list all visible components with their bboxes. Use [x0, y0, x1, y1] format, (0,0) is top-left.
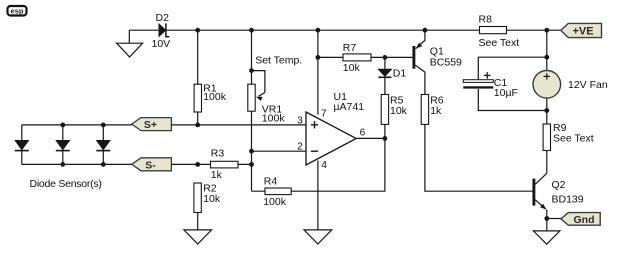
junction: R1 bottom on S+: [195, 123, 200, 128]
junction: Q1 emitter on rail: [423, 28, 428, 33]
junction: sensor bottom 2: [60, 162, 65, 167]
label Q1: [430, 45, 444, 57]
junction: pin7 feed on rail: [316, 28, 321, 33]
label U1 type uA741: [334, 101, 365, 113]
svg-text:100k: 100k: [262, 113, 286, 125]
ground (left, D2 anode): [117, 30, 143, 57]
wire: to Gnd flag: [547, 218, 561, 220]
capacitor C1: [463, 72, 493, 89]
pin 3 label: [297, 115, 303, 126]
label R4: [264, 176, 278, 188]
ground (Q2 emitter): [533, 231, 560, 244]
svg-text:6: 6: [360, 127, 366, 138]
label R3 value 1k: [211, 169, 223, 181]
svg-text:+VE: +VE: [572, 26, 593, 38]
wire: pin 2 input: [252, 150, 307, 152]
resistor R2: [194, 183, 201, 213]
wire: R1 bottom lead: [197, 112, 199, 125]
junction: C1 top tee: [544, 55, 549, 60]
resistor R4: [265, 188, 291, 195]
wire: R7 right to Q1 base: [371, 56, 413, 58]
svg-text:R8: R8: [479, 14, 493, 26]
wire: D1 top lead: [384, 57, 386, 69]
transistor Q2 BD139: [534, 173, 547, 218]
label D2 value 10V: [152, 38, 171, 50]
label R6 value 1k: [430, 105, 442, 117]
junction: pin2 tee: [249, 149, 254, 154]
wire: fan bottom to R9: [546, 98, 548, 124]
label VR1 value 100k: [262, 113, 286, 125]
wire: sensor cathode rail (S-): [22, 163, 132, 165]
junction: R7 left tee: [316, 55, 321, 60]
junction: +VE / fan node: [544, 28, 549, 33]
wire: R7 left lead: [318, 56, 343, 58]
wire: S- to R3: [171, 163, 251, 165]
svg-text:See Text: See Text: [479, 37, 520, 49]
label R6: [430, 94, 444, 106]
ground (pin 4): [304, 230, 332, 244]
label C1: [494, 77, 508, 89]
node flag S-: [132, 158, 172, 172]
junction: output node: [383, 136, 388, 141]
trimpot VR1: [248, 71, 265, 112]
svg-text:Set Temp.: Set Temp.: [255, 54, 302, 66]
node flag Gnd: [561, 213, 600, 226]
svg-text:R7: R7: [343, 42, 357, 54]
svg-text:1k: 1k: [430, 105, 442, 117]
wire: sensor anode rail (S+): [22, 124, 132, 126]
wire: pin 4 to ground: [317, 160, 319, 230]
wire: R5 bottom lead: [384, 124, 386, 138]
resistor R5: [381, 95, 388, 125]
pin 7 label: [321, 109, 327, 120]
junction: D1 / Q1 base node: [383, 55, 388, 60]
label C1 value 10uF: [494, 87, 518, 99]
pin 2 label: [297, 142, 303, 153]
svg-text:Q1: Q1: [430, 45, 444, 57]
svg-text:100k: 100k: [263, 196, 287, 208]
junction: sensor bottom 3: [101, 162, 106, 167]
wire: S+ to pin 3: [171, 124, 306, 126]
svg-text:10V: 10V: [152, 38, 171, 50]
label R7: [343, 42, 357, 54]
label R8: [479, 14, 493, 26]
label R1 value 100k: [203, 91, 227, 103]
label Diode Sensor(s): [30, 178, 102, 190]
wire: C1 top link: [478, 57, 547, 79]
resistor R3: [211, 161, 239, 168]
label Q2 type BD139: [552, 193, 584, 205]
label R7 value 10k: [343, 62, 361, 74]
junction: C1 bottom / R9 top: [544, 108, 549, 113]
wire: op-amp output: [356, 137, 385, 139]
svg-text:1k: 1k: [211, 169, 223, 181]
svg-text:Gnd: Gnd: [574, 214, 595, 226]
svg-text:4: 4: [321, 160, 327, 171]
svg-text:Q2: Q2: [552, 179, 566, 191]
resistor R9: [543, 124, 550, 151]
wire: R6 bottom to Q2 base: [425, 124, 533, 191]
svg-text:10k: 10k: [343, 62, 361, 74]
label R8 note See Text: [479, 37, 520, 49]
svg-text:7: 7: [321, 109, 327, 120]
resistor R8: [480, 27, 507, 34]
op-amp U1 uA741: [306, 112, 356, 165]
label R9: [553, 122, 567, 134]
wire: D1 to R5: [384, 77, 386, 94]
label R2: [203, 182, 217, 194]
label D1: [393, 68, 407, 80]
label U1: [334, 91, 348, 103]
label 12V Fan: [568, 79, 608, 91]
label Q2: [552, 179, 566, 191]
junction: R2 top on S-: [195, 162, 200, 167]
wire: R9 bottom lead: [546, 151, 548, 174]
svg-text:S-: S-: [145, 159, 156, 171]
svg-text:R4: R4: [264, 176, 278, 188]
sensor diode 2: [56, 125, 70, 164]
svg-text:µA741: µA741: [334, 101, 365, 113]
label D2: [156, 12, 170, 24]
wire: rail to fan top: [546, 30, 548, 70]
svg-text:12V Fan: 12V Fan: [568, 79, 608, 91]
resistor R1: [194, 84, 201, 112]
label R2 value 10k: [203, 193, 221, 205]
svg-text:S+: S+: [144, 119, 157, 131]
svg-text:D2: D2: [156, 12, 170, 24]
junction: R3 right / pin2 net: [249, 162, 254, 167]
svg-text:BC559: BC559: [430, 57, 462, 69]
ground (R2): [184, 230, 212, 244]
pin 6 label: [360, 127, 366, 138]
svg-text:10k: 10k: [203, 193, 221, 205]
diode D1: [378, 69, 391, 77]
svg-text:D1: D1: [393, 68, 407, 80]
resistor R7: [343, 54, 371, 61]
motor: 12V fan: [533, 71, 561, 99]
label Set Temp.: [255, 54, 302, 66]
wire: Gnd stub: [546, 219, 548, 231]
label VR1: [262, 104, 283, 116]
wire: VR1 top lead: [251, 30, 253, 84]
wire: VR1 bottom to pin2 net: [251, 111, 253, 191]
junction: Q2 emitter / Gnd node: [544, 216, 549, 221]
label R5 value 10k: [390, 105, 408, 117]
zener diode D2: [159, 23, 169, 36]
label R4 value 100k: [263, 196, 287, 208]
svg-text:R3: R3: [211, 148, 225, 160]
wire: pin 7 supply: [317, 30, 319, 114]
node flag +VE: [561, 23, 602, 37]
transistor Q1 BC559: [414, 30, 425, 94]
svg-text:Diode Sensor(s): Diode Sensor(s): [30, 178, 102, 190]
wire: feedback down-left: [252, 138, 385, 191]
label Q1 type BC559: [430, 57, 462, 69]
junction: VR1 top on rail: [249, 28, 254, 33]
wire: R2 bottom lead: [197, 213, 199, 230]
label R1: [203, 83, 217, 95]
junction: R1 top on rail: [195, 28, 200, 33]
pin 4 label: [321, 160, 327, 171]
svg-text:BD139: BD139: [552, 193, 584, 205]
ESP logo: [8, 6, 27, 16]
svg-text:10µF: 10µF: [494, 87, 518, 99]
junction: VR1 wiper tie: [249, 68, 254, 73]
label R3: [211, 148, 225, 160]
junction: sensor top 2: [60, 123, 65, 128]
sensor diode 1: [15, 125, 29, 164]
resistor R6: [421, 95, 428, 125]
wire: +10V / +VE top rail: [129, 29, 561, 31]
svg-text:See Text: See Text: [553, 133, 594, 145]
junction: sensor top 3: [101, 123, 106, 128]
svg-text:10k: 10k: [390, 105, 408, 117]
svg-text:100k: 100k: [203, 91, 227, 103]
wire: C1 bottom link: [478, 89, 547, 111]
sensor diode 3: [96, 125, 110, 164]
wire: R1 top lead: [197, 30, 199, 84]
label R5: [390, 94, 404, 106]
svg-text:esp: esp: [11, 6, 24, 15]
node flag S+: [132, 118, 172, 132]
label R9 note See Text: [553, 133, 594, 145]
